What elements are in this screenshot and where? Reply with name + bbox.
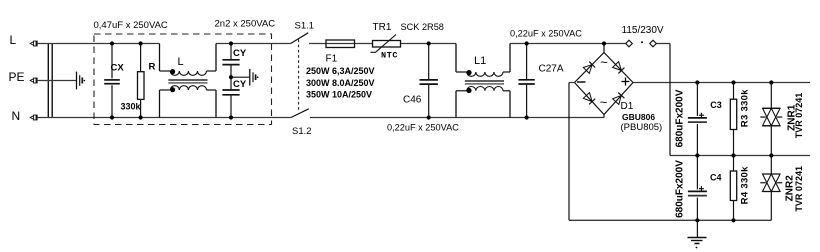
svg-text:S1.2: S1.2 <box>292 126 312 137</box>
svg-text:D1: D1 <box>621 101 634 112</box>
svg-text:CX: CX <box>111 62 125 73</box>
svg-text:350W 10A/250V: 350W 10A/250V <box>306 90 372 100</box>
svg-text:R3 330k: R3 330k <box>739 89 750 127</box>
svg-text:CY: CY <box>233 79 247 90</box>
svg-text:N: N <box>12 109 21 123</box>
svg-text:680uFx200V: 680uFx200V <box>674 89 685 147</box>
svg-text:0,22uF x 250VAC: 0,22uF x 250VAC <box>387 123 459 133</box>
svg-text:PE: PE <box>9 70 25 84</box>
svg-text:CY: CY <box>233 48 247 59</box>
svg-text:115/230V: 115/230V <box>622 25 664 36</box>
svg-text:300W 8.0A/250V: 300W 8.0A/250V <box>306 78 375 88</box>
svg-text:TVR 07241: TVR 07241 <box>794 166 804 212</box>
svg-text:L1: L1 <box>474 55 486 67</box>
svg-text:~: ~ <box>600 55 608 70</box>
svg-text:TR1: TR1 <box>373 22 392 33</box>
svg-text:R4 330k: R4 330k <box>739 166 750 204</box>
svg-text:SCK 2R58: SCK 2R58 <box>401 22 444 32</box>
svg-text:GBU806: GBU806 <box>622 112 655 122</box>
svg-text:330k: 330k <box>121 101 142 111</box>
svg-text:L: L <box>10 33 17 47</box>
svg-text:NTC: NTC <box>381 51 398 61</box>
svg-text:L: L <box>178 56 184 68</box>
svg-text:0,22uF x 250VAC: 0,22uF x 250VAC <box>510 29 582 39</box>
svg-text:C4: C4 <box>710 173 722 183</box>
svg-text:680uFx200V: 680uFx200V <box>674 160 685 218</box>
svg-text:R: R <box>149 62 156 73</box>
svg-text:2n2 x 250VAC: 2n2 x 250VAC <box>215 18 276 29</box>
svg-text:TVR 07241: TVR 07241 <box>794 93 804 139</box>
svg-text:0,47uF x 250VAC: 0,47uF x 250VAC <box>94 20 168 31</box>
svg-text:~: ~ <box>600 95 608 110</box>
svg-text:F1: F1 <box>326 54 338 65</box>
svg-text:S1.1: S1.1 <box>295 21 315 32</box>
svg-text:C27A: C27A <box>539 64 564 75</box>
svg-text:(PBU805): (PBU805) <box>621 122 663 133</box>
svg-text:C46: C46 <box>403 94 422 105</box>
svg-text:250W 6,3A/250V: 250W 6,3A/250V <box>306 66 375 76</box>
svg-text:C3: C3 <box>710 100 722 110</box>
